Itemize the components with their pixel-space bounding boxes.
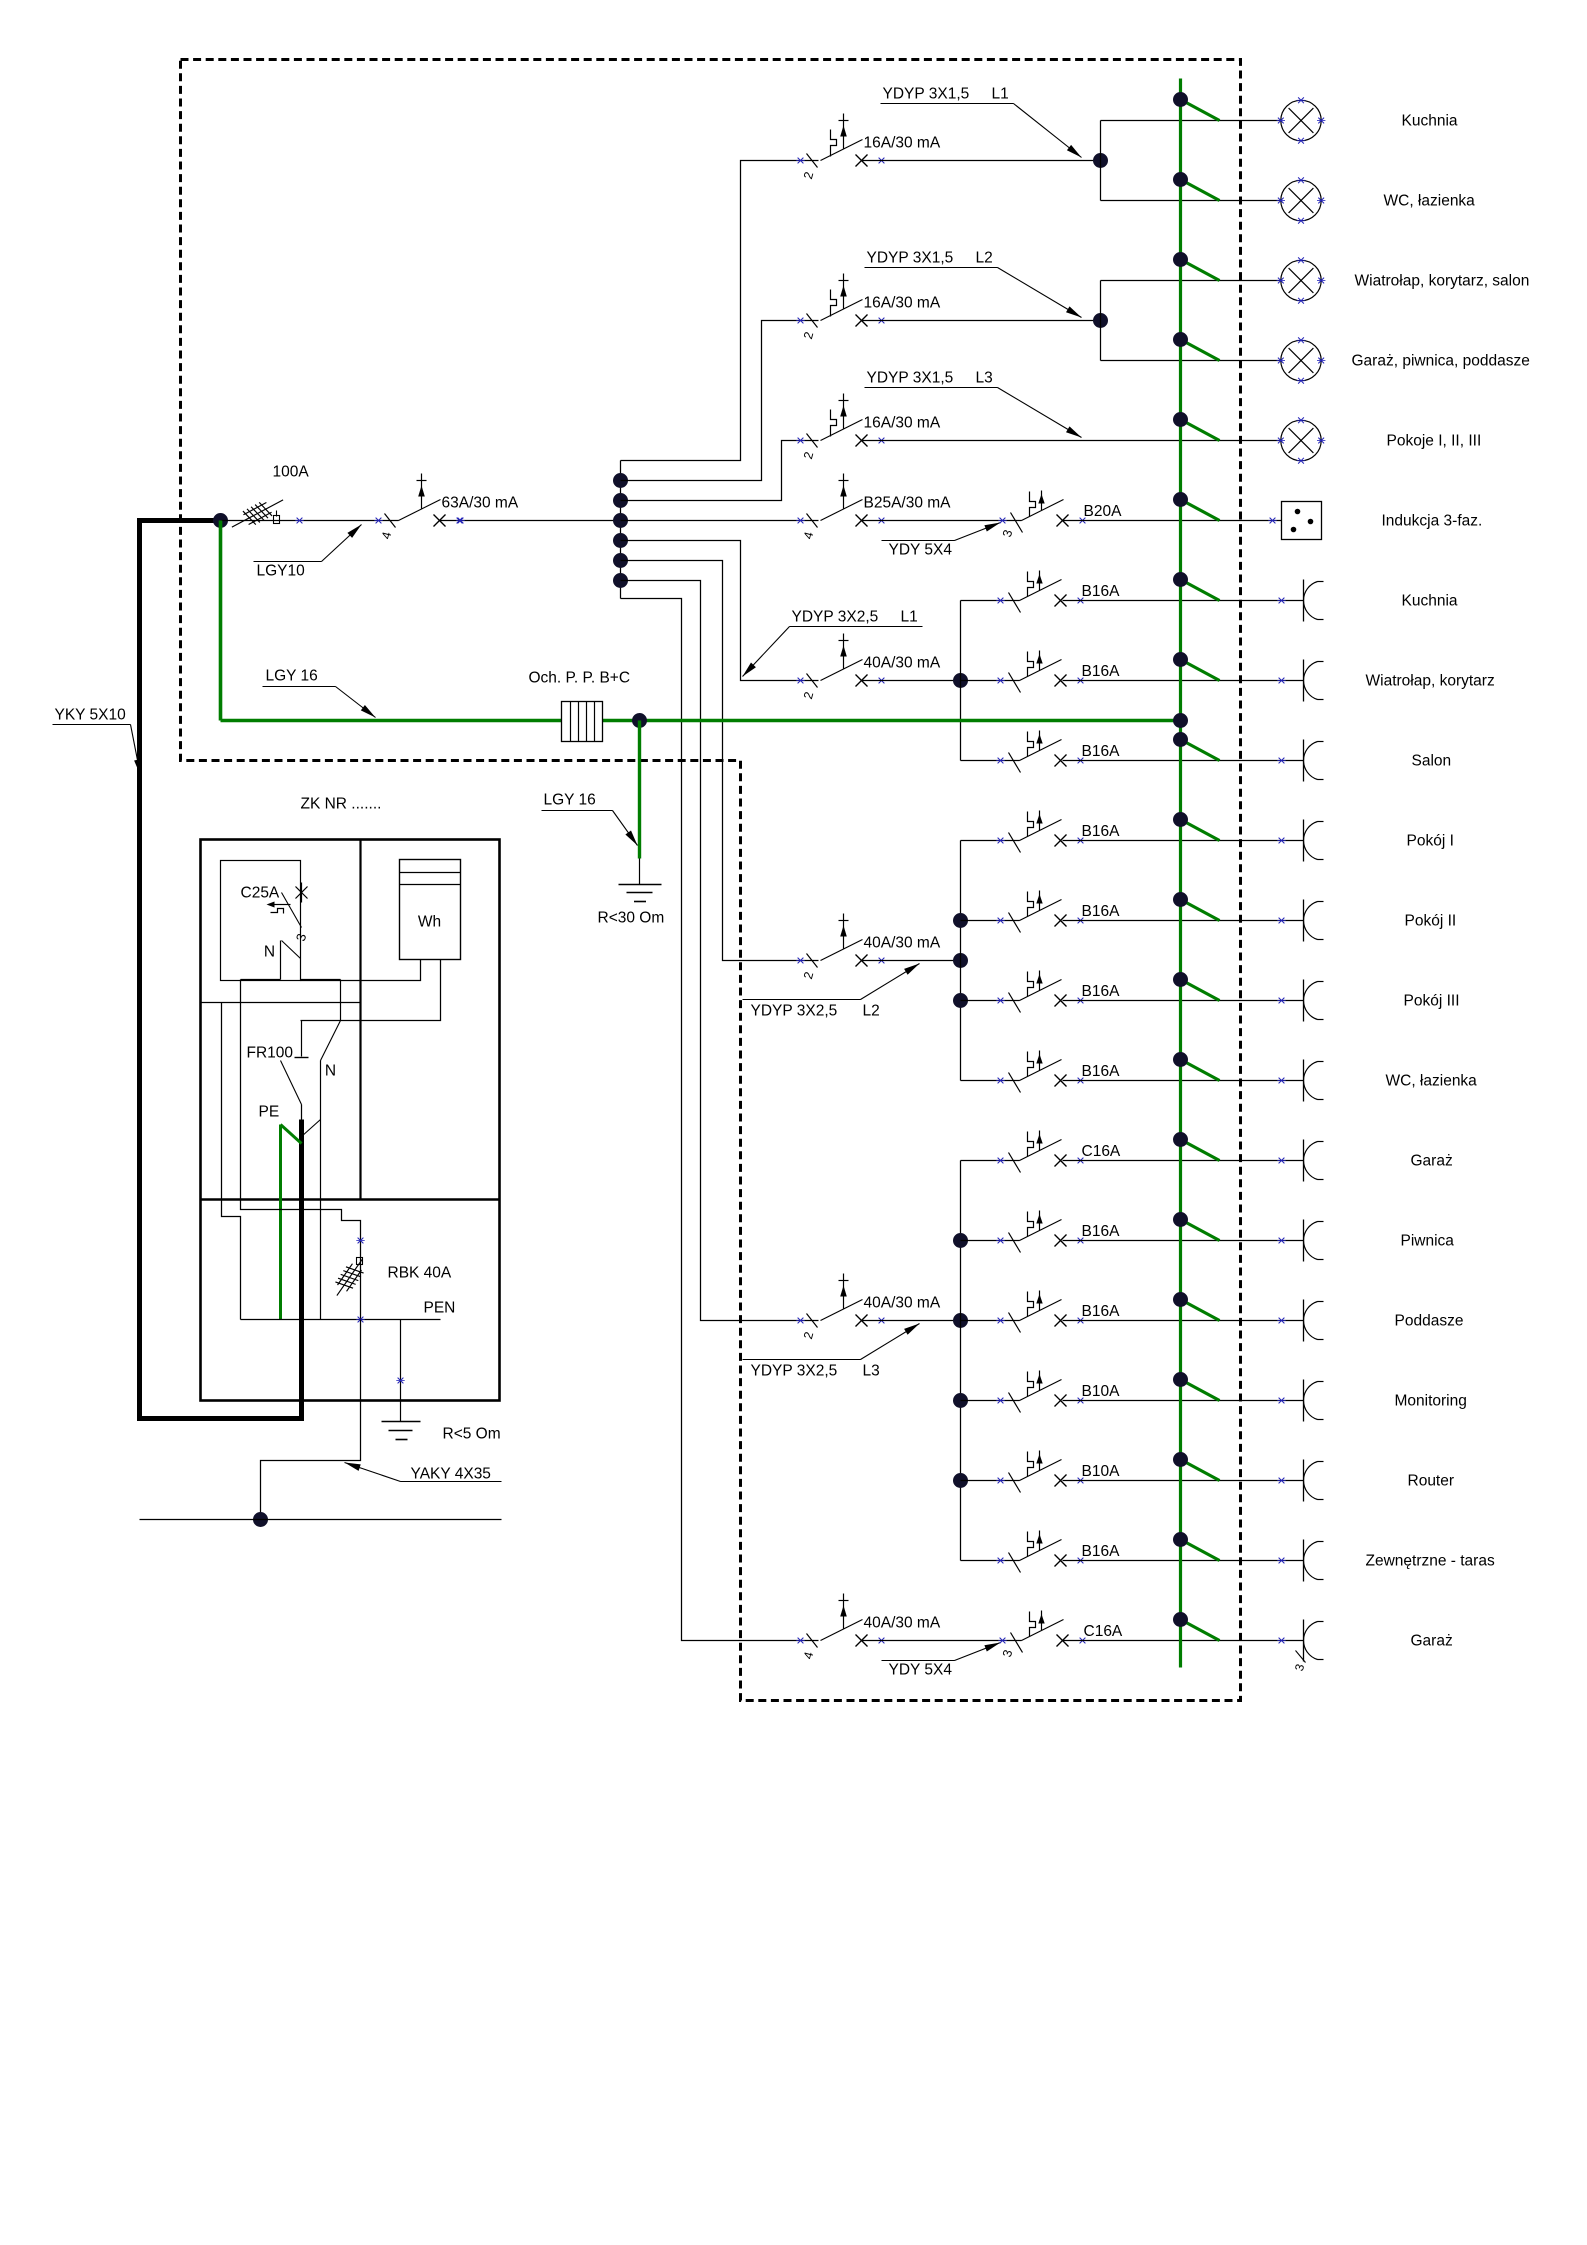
svg-text:PEN: PEN [424, 1300, 456, 1317]
socket outlet Piwnica [1277, 1220, 1323, 1262]
wire [961, 920, 1020, 922]
RCBO 16A/30 mA lighting L3 [796, 394, 941, 461]
wire - PE branch (green diagonal) [1173, 892, 1220, 921]
label Pokój III [1404, 993, 1460, 1010]
RCD 40A/30 mA garage (4-pole) [796, 1594, 941, 1661]
node [613, 513, 628, 528]
label YKY 5X10 with leader [53, 707, 141, 776]
label PE [259, 1104, 280, 1121]
svg-text:LGY 16: LGY 16 [544, 792, 596, 809]
breaker B16A circuit WC, łazienka [996, 1051, 1120, 1093]
svg-text:Salon: Salon [1412, 753, 1452, 770]
wire - thick incoming cable YKY 5X10 (left loop) [140, 521, 302, 1419]
svg-text:B10A: B10A [1082, 1383, 1121, 1400]
wire - PE bus (green vertical) [1179, 79, 1182, 1668]
socket outlet Kuchnia [1277, 580, 1323, 622]
label Zewnętrzne - taras [1366, 1553, 1495, 1570]
svg-text:YDYP 3X2,5: YDYP 3X2,5 [792, 609, 879, 626]
wire - PE branch (green diagonal) [1173, 1052, 1220, 1081]
svg-text:B25A/30 mA: B25A/30 mA [864, 495, 952, 512]
node - group L3 feed [953, 1313, 968, 1328]
svg-text:ZK NR .......: ZK NR ....... [301, 796, 382, 813]
svg-text:40A/30 mA: 40A/30 mA [864, 655, 941, 672]
svg-text:YDYP 3X2,5: YDYP 3X2,5 [751, 1003, 838, 1020]
breaker B10A circuit Router [996, 1451, 1120, 1493]
svg-text:PE: PE [259, 1104, 280, 1121]
svg-text:YDY 5X4: YDY 5X4 [889, 542, 953, 559]
wire - ZK internal divider vertical [359, 840, 361, 1200]
svg-text:YDYP 3X1,5: YDYP 3X1,5 [883, 86, 970, 103]
lamp Garaz piwnica poddasze [1277, 337, 1326, 383]
RCBO 16A/30 mA lighting L2 [796, 274, 941, 341]
label Piwnica [1401, 1233, 1455, 1250]
socket outlet Pokój II [1277, 900, 1323, 942]
svg-text:Piwnica: Piwnica [1401, 1233, 1455, 1250]
wire [301, 980, 341, 1021]
switch FR100 (main isolating switch) [247, 1021, 309, 1122]
node [953, 1233, 968, 1248]
svg-text:L2: L2 [863, 1003, 880, 1020]
svg-text:C16A: C16A [1082, 1143, 1121, 1160]
svg-text:B16A: B16A [1082, 1063, 1121, 1080]
node - group L2 feed [953, 953, 968, 968]
wire - PE branch (green diagonal) [1173, 332, 1220, 361]
RCD 63A/30 mA main (4-pole) [374, 474, 519, 541]
label YDY 5X4 with leader [882, 523, 1001, 559]
svg-text:YDYP 3X1,5: YDYP 3X1,5 [867, 370, 954, 387]
breaker C25A (3-pole, vertical) [241, 883, 310, 943]
svg-text:RBK 40A: RBK 40A [388, 1265, 452, 1282]
breaker B16A circuit Kuchnia [996, 571, 1120, 613]
socket outlet Monitoring [1277, 1380, 1323, 1422]
fuse RBK 40A [335, 1258, 365, 1296]
socket outlet Pokój III [1277, 980, 1323, 1022]
wire - PE branch (green diagonal) [1173, 732, 1220, 761]
wire [961, 1480, 1020, 1482]
wire - N conductor to PEN [320, 1120, 322, 1320]
wire - meter left lead [301, 960, 421, 981]
wire - to socket [1063, 1400, 1304, 1402]
breaker B10A circuit Monitoring [996, 1371, 1120, 1413]
socket outlet Garaż [1277, 1140, 1323, 1182]
switch N-pole of C25A [264, 941, 301, 961]
svg-text:B16A: B16A [1082, 1223, 1121, 1240]
wire - PE branch (green diagonal) [1173, 172, 1220, 201]
node - main input junction [213, 513, 228, 528]
ground - earth electrode R<30 Om [619, 885, 662, 902]
svg-text:B16A: B16A [1082, 903, 1121, 920]
wire - feed to RCD B25A [621, 520, 819, 522]
svg-text:L1: L1 [901, 609, 918, 626]
svg-text:40A/30 mA: 40A/30 mA [864, 1295, 941, 1312]
svg-text:YDYP 3X1,5: YDYP 3X1,5 [867, 250, 954, 267]
node - L2 lighting split [1093, 313, 1108, 328]
svg-text:R<5 Om: R<5 Om [443, 1426, 501, 1443]
node [613, 553, 628, 568]
svg-text:B16A: B16A [1082, 1543, 1121, 1560]
svg-text:B16A: B16A [1082, 823, 1121, 840]
label RBK 40A [388, 1265, 452, 1282]
wire - PE branch (green diagonal) [1173, 92, 1220, 121]
svg-text:16A/30 mA: 16A/30 mA [864, 295, 941, 312]
breaker B16A circuit Pokój I [996, 811, 1120, 853]
wire - PE branch (green diagonal) [1173, 572, 1220, 601]
label YDYP 3X1,5 L2 with leader [865, 250, 1082, 318]
wire [961, 1320, 1020, 1322]
fuse 100A (main cut-out) [232, 499, 283, 527]
wire - to socket [1063, 680, 1304, 682]
label Och. P. P. B+C [529, 670, 631, 687]
wire - PE branch (green diagonal) [1173, 1612, 1220, 1641]
wire - input to 100A fuse and 63A RCD [221, 520, 399, 522]
label Wiatrołap, korytarz [1366, 673, 1495, 690]
socket outlet Router [1277, 1460, 1323, 1502]
wire - RCD L1 output to group bracket [862, 680, 961, 682]
svg-text:Poddasze: Poddasze [1395, 1313, 1464, 1330]
wire - N conductor from C25A [280, 941, 282, 980]
wire - to socket [1063, 1320, 1304, 1322]
breaker B16A circuit Pokój II [996, 891, 1120, 933]
wire - group L2 bracket [960, 841, 962, 1081]
blue break mark [295, 518, 303, 524]
svg-text:R<30 Om: R<30 Om [598, 910, 665, 927]
wire - B20A output to 3-phase socket [1063, 520, 1282, 522]
meter Wh [400, 860, 461, 960]
label Pokój II [1405, 913, 1457, 930]
wire - phase conductor to lower compartment [222, 1003, 241, 1320]
wire [961, 1560, 1020, 1562]
svg-text:Pokój III: Pokój III [1404, 993, 1460, 1010]
wire - PE branch (green diagonal) [1173, 492, 1220, 521]
svg-text:Wiatrołap, korytarz: Wiatrołap, korytarz [1366, 673, 1495, 690]
breaker C16A circuit Garaż [996, 1131, 1121, 1173]
svg-text:B16A: B16A [1082, 983, 1121, 1000]
wire - feed to lighting RCD L1 [621, 161, 819, 461]
RCD B25A/30 mA (4-pole) [796, 474, 951, 541]
wire [961, 1400, 1020, 1402]
node - group L1 feed [953, 673, 968, 688]
svg-text:Wh: Wh [418, 914, 441, 931]
svg-text:YKY 5X10: YKY 5X10 [55, 707, 127, 724]
svg-text:40A/30 mA: 40A/30 mA [864, 1615, 941, 1632]
node [613, 493, 628, 508]
RCD 40A/30 mA sockets L2 [796, 914, 941, 981]
node [953, 1473, 968, 1488]
svg-text:C25A: C25A [241, 885, 280, 902]
wire - street main [140, 1519, 502, 1521]
blue break mark [1268, 518, 1276, 524]
wire - L1 RCBO output [862, 160, 1101, 162]
ground - PEN earth electrode R<5 Om [382, 1422, 421, 1440]
label Kuchnia [1402, 113, 1458, 130]
label ZK NR ....... [301, 796, 382, 813]
wire - RCD L3 output to group bracket [862, 1320, 961, 1322]
svg-text:B16A: B16A [1082, 663, 1121, 680]
wire - to earth electrode [639, 859, 641, 885]
node - PE bus junction [1173, 713, 1188, 728]
blue break mark [356, 1238, 364, 1244]
svg-text:B16A: B16A [1082, 1303, 1121, 1320]
label R<5 Om [443, 1426, 501, 1443]
socket outlet Wiatrołap, korytarz [1277, 660, 1323, 702]
wire - L2 RCBO output [862, 320, 1101, 322]
socket outlet Salon [1277, 740, 1323, 782]
node [953, 993, 968, 1008]
label Indukcja 3-faz. [1382, 513, 1483, 530]
blue break mark [356, 1317, 364, 1323]
label YDYP 3X2,5 L2 with leader [743, 964, 920, 1020]
svg-text:Pokój II: Pokój II [1405, 913, 1457, 930]
label Garaż [1411, 1153, 1453, 1170]
wire [241, 979, 281, 981]
svg-text:Pokój I: Pokój I [1407, 833, 1454, 850]
wire - PE branch (green diagonal) [1173, 252, 1220, 281]
label WC, łazienka [1384, 193, 1476, 210]
svg-text:N: N [325, 1063, 336, 1080]
svg-text:YDYP 3X2,5: YDYP 3X2,5 [751, 1363, 838, 1380]
wire [961, 760, 1020, 762]
wire [961, 1160, 1020, 1162]
socket outlet Garaż 3-phase [1277, 1620, 1323, 1673]
label YDYP 3X2,5 L1 with leader [743, 609, 923, 677]
wire - to lamp Kuchnia [1101, 120, 1281, 122]
svg-text:YDY 5X4: YDY 5X4 [889, 1662, 953, 1679]
svg-text:Och. P. P. B+C: Och. P. P. B+C [529, 670, 631, 687]
wire - L3 RCBO output to lamp [862, 440, 1281, 442]
label Salon [1412, 753, 1452, 770]
node [613, 573, 628, 588]
svg-text:B10A: B10A [1082, 1463, 1121, 1480]
socket outlet Poddasze [1277, 1300, 1323, 1342]
label Pokoje I, II, III [1387, 433, 1482, 450]
wire - meter right lead [301, 960, 441, 1021]
svg-text:B16A: B16A [1082, 583, 1121, 600]
node [613, 473, 628, 488]
wire - PE branch (green diagonal) [1173, 812, 1220, 841]
svg-text:FR100: FR100 [247, 1045, 294, 1062]
wire - garage RCD to C16A [862, 1640, 1022, 1642]
wire - RCD L2 output to group bracket [862, 960, 961, 962]
wire - feed to socket RCD L2 [621, 561, 819, 961]
wire - PE drop from main input [219, 521, 223, 721]
label Garaż [1411, 1633, 1453, 1650]
wire [961, 1240, 1020, 1242]
label Pokój I [1407, 833, 1454, 850]
svg-text:WC, łazienka: WC, łazienka [1386, 1073, 1478, 1090]
switch FR100 N-pole [302, 1021, 341, 1137]
svg-text:Monitoring: Monitoring [1395, 1393, 1467, 1410]
wire - feed to lighting RCD L3 [621, 441, 819, 501]
label LGY10 with leader [254, 525, 362, 580]
svg-text:B20A: B20A [1084, 503, 1123, 520]
svg-text:YAKY 4X35: YAKY 4X35 [411, 1466, 491, 1483]
wire - PE branch (green diagonal) [1173, 412, 1220, 441]
wire - to earth electrode (green) [638, 721, 641, 859]
breaker B16A circuit Salon [996, 731, 1120, 773]
RCD 40A/30 mA sockets L3 [796, 1274, 941, 1341]
wire [961, 840, 1020, 842]
wire [961, 1080, 1020, 1082]
wire - PE branch (green diagonal) [1173, 1132, 1220, 1161]
node - street main tap [253, 1512, 268, 1527]
wire [961, 680, 1020, 682]
svg-text:WC, łazienka: WC, łazienka [1384, 193, 1476, 210]
lamp Pokoje I II III [1277, 417, 1326, 463]
svg-text:Kuchnia: Kuchnia [1402, 113, 1458, 130]
lamp Kuchnia [1277, 97, 1326, 143]
wire - supply drop below ZK [261, 1320, 361, 1520]
svg-text:100A: 100A [273, 464, 310, 481]
wire - to garage 3-phase socket [1063, 1640, 1304, 1642]
label Monitoring [1395, 1393, 1467, 1410]
wire - PEN bar [241, 1319, 441, 1321]
svg-text:LGY10: LGY10 [257, 563, 306, 580]
svg-text:L2: L2 [976, 250, 993, 267]
wire - ZK partition line [201, 1002, 361, 1004]
wire - to socket [1063, 760, 1304, 762]
label Poddasze [1395, 1313, 1464, 1330]
wire - feed to garage RCD [621, 599, 819, 1641]
wire - feed to RBK fuse [241, 980, 361, 1320]
enclosure ZK cabinet [201, 840, 500, 1401]
wire - to socket [1063, 1240, 1304, 1242]
breaker B16A circuit Wiatrołap, korytarz [996, 651, 1120, 693]
label YDYP 3X1,5 L1 with leader [881, 86, 1082, 158]
wire - ZK internal divider horizontal [201, 1198, 500, 1201]
dashed border of main switchboard (rozdzielnica) enclosure [181, 60, 1241, 1701]
wire - to socket [1063, 1560, 1304, 1562]
wire - to socket [1063, 1000, 1304, 1002]
wire - to socket [1063, 840, 1304, 842]
lamp Wiatrolap korytarz salon [1277, 257, 1326, 303]
breaker B20A (3-pole) [998, 491, 1122, 539]
label Garaż, piwnica, poddasze [1352, 353, 1530, 370]
svg-text:Kuchnia: Kuchnia [1402, 593, 1458, 610]
wire - to socket [1063, 1160, 1304, 1162]
wire - PE branch (green diagonal) [1173, 1372, 1220, 1401]
label YDYP 3X1,5 L3 with leader [865, 370, 1082, 438]
blue break mark [456, 518, 464, 524]
RCBO 16A/30 mA lighting L1 [796, 114, 941, 181]
wire - PE branch (green diagonal) [1173, 972, 1220, 1001]
label YDYP 3X2,5 L3 with leader [743, 1324, 920, 1380]
breaker C16A garage (3-pole) [998, 1611, 1123, 1659]
svg-text:Garaż: Garaż [1411, 1633, 1453, 1650]
socket outlet Zewnętrzne - taras [1277, 1540, 1323, 1582]
RCD 40A/30 mA sockets L1 [796, 634, 941, 701]
svg-text:LGY 16: LGY 16 [266, 668, 318, 685]
label LGY 16 with leader (earth) [542, 792, 638, 846]
label PEN [424, 1300, 456, 1317]
svg-text:40A/30 mA: 40A/30 mA [864, 935, 941, 952]
wire - feed to lighting RCD L2 [621, 321, 819, 481]
breaker B16A circuit Poddasze [996, 1291, 1120, 1333]
surge arrester Och. P. P. B+C [562, 702, 603, 742]
svg-text:16A/30 mA: 16A/30 mA [864, 135, 941, 152]
breaker B16A circuit Pokój III [996, 971, 1120, 1013]
svg-text:Pokoje I, II, III: Pokoje I, II, III [1387, 433, 1482, 450]
wire - PEN earthing [400, 1320, 402, 1422]
svg-text:L1: L1 [992, 86, 1009, 103]
wire - to socket [1063, 1080, 1304, 1082]
wire - PE link (green horizontal) [221, 719, 1181, 723]
label Kuchnia [1402, 593, 1458, 610]
wire - to socket [1063, 600, 1304, 602]
wire - PE branch (green diagonal) [1173, 1452, 1220, 1481]
svg-text:B16A: B16A [1082, 743, 1121, 760]
wire - to socket [1063, 920, 1304, 922]
svg-text:Garaż: Garaż [1411, 1153, 1453, 1170]
label R<30 Om [598, 910, 665, 927]
wire - vertical distribution stack [620, 461, 622, 599]
label LGY 16 with leader (PE link) [263, 668, 376, 718]
wire - PE tap (green) [281, 1125, 302, 1320]
label Wiatrołap, korytarz, salon [1355, 273, 1530, 290]
svg-text:Wiatrołap, korytarz, salon: Wiatrołap, korytarz, salon [1355, 273, 1530, 290]
node - L1 lighting split [1093, 153, 1108, 168]
wire - L1 bracket [1100, 121, 1102, 201]
wire - to socket [1063, 1480, 1304, 1482]
wire - 63A RCD output to distribution stack [440, 520, 621, 522]
node [953, 1393, 968, 1408]
breaker B16A circuit Zewnętrzne - taras [996, 1531, 1120, 1573]
label 100A [273, 464, 310, 481]
wire - to lamp Wiatrolap [1101, 280, 1281, 282]
svg-text:Indukcja 3-faz.: Indukcja 3-faz. [1382, 513, 1483, 530]
wire - PE branch (green diagonal) [1173, 1292, 1220, 1321]
wire [961, 1000, 1020, 1002]
svg-text:L3: L3 [863, 1363, 880, 1380]
svg-text:Zewnętrzne - taras: Zewnętrzne - taras [1366, 1553, 1495, 1570]
wire - group L3 bracket [960, 1161, 962, 1561]
wire - PE branch (green diagonal) [1173, 1212, 1220, 1241]
svg-text:L3: L3 [976, 370, 993, 387]
wire - to lamp Garaz [1101, 360, 1281, 362]
wire - to lamp WC [1101, 200, 1281, 202]
label WC, łazienka [1386, 1073, 1478, 1090]
wire - PE branch (green diagonal) [1173, 1532, 1220, 1561]
label Router [1408, 1473, 1455, 1490]
label YAKY 4X35 with leader [345, 1463, 502, 1483]
breaker B16A circuit Piwnica [996, 1211, 1120, 1253]
wire - L2 bracket [1100, 281, 1102, 361]
socket 3-phase Indukcja [1282, 502, 1322, 540]
node - earth tap [632, 713, 647, 728]
node [613, 533, 628, 548]
blue break mark [396, 1378, 404, 1384]
svg-text:N: N [264, 944, 275, 961]
wire [961, 600, 1020, 602]
socket outlet WC, łazienka [1277, 1060, 1323, 1102]
wire - feed to socket RCD L3 [621, 581, 819, 1321]
svg-text:Garaż, piwnica, poddasze: Garaż, piwnica, poddasze [1352, 353, 1530, 370]
wire - B25A output to B20A [862, 520, 1022, 522]
label YDY 5X4 with leader (garage) [882, 1643, 1001, 1679]
svg-text:Router: Router [1408, 1473, 1455, 1490]
svg-text:63A/30 mA: 63A/30 mA [442, 495, 519, 512]
svg-text:C16A: C16A [1084, 1623, 1123, 1640]
lamp WC, lazienka [1277, 177, 1326, 223]
enclosure C25A compartment [221, 861, 301, 981]
svg-text:16A/30 mA: 16A/30 mA [864, 415, 941, 432]
wire - group L1 bracket [960, 601, 962, 761]
socket outlet Pokój I [1277, 820, 1323, 862]
node [953, 913, 968, 928]
wire - feed to socket RCD L1 [621, 541, 819, 681]
wire - PE branch (green diagonal) [1173, 652, 1220, 681]
